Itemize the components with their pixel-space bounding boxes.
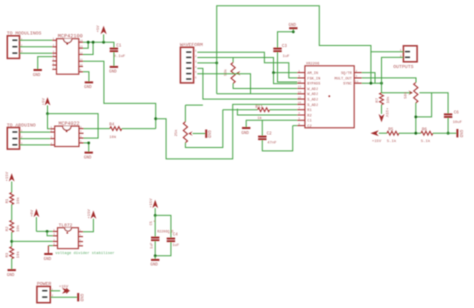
- wire AM junction to BYPASS: [274, 73, 298, 84]
- svg-text:6: 6: [298, 123, 300, 126]
- wire tap to TL072: [12, 240, 53, 242]
- wire rail mid: [399, 132, 421, 134]
- connector J1 TO MODULINOS: [7, 31, 42, 59]
- svg-text:C4: C4: [173, 233, 179, 237]
- svg-text:+5V: +5V: [97, 25, 101, 33]
- wire +5V to IC2 left: [48, 114, 51, 129]
- connector J2 TO ARDUINO: [7, 122, 36, 149]
- wire J1.3 to IC1: [20, 52, 53, 54]
- node N1: [154, 117, 157, 120]
- wire POWER pin1: [50, 290, 60, 292]
- wire J3.3 to top net: [197, 62, 216, 64]
- node +5V junction: [46, 112, 49, 115]
- ground GND1: [33, 69, 42, 78]
- svg-text:50k: 50k: [223, 68, 228, 76]
- node SYNC row junctions: [370, 82, 383, 85]
- resistor R6 5.1k: [421, 128, 433, 144]
- node AM junction: [272, 71, 275, 74]
- svg-text:11: 11: [355, 80, 359, 83]
- wire +5V to IC2 right: [48, 114, 99, 139]
- svg-text:GND: GND: [241, 132, 249, 136]
- capacitor C4 1uF: [155, 215, 180, 255]
- ground GND2 under C1: [109, 66, 118, 75]
- node C3 gnd junction: [292, 30, 295, 33]
- resistor R5 5.1k: [387, 128, 399, 144]
- svg-text:S_ADJ: S_ADJ: [307, 104, 318, 108]
- wire chain to gnd: [11, 259, 13, 270]
- wire IC2 out to R4: [84, 128, 110, 130]
- resistor R4 10k: [109, 124, 122, 140]
- node divider tap: [10, 240, 13, 243]
- svg-text:W_ADJ: W_ADJ: [307, 93, 318, 97]
- svg-text:7: 7: [298, 107, 300, 110]
- svg-text:10: 10: [80, 64, 84, 67]
- svg-text:1: 1: [298, 70, 300, 73]
- supply -15V arrow down: [379, 108, 388, 123]
- svg-text:+6V: +6V: [31, 209, 35, 217]
- svg-text:0.1uF: 0.1uF: [114, 55, 126, 59]
- svg-text:13: 13: [80, 46, 84, 49]
- svg-text:14: 14: [80, 40, 84, 43]
- node rail junctions: [414, 132, 449, 135]
- svg-text:8: 8: [298, 112, 300, 115]
- potentiometer 50k (left): [223, 58, 297, 89]
- op-amp IC2 MCP4922: [50, 121, 83, 147]
- svg-text:+15V: +15V: [372, 140, 382, 144]
- wire OUTPUTS pin2: [382, 57, 404, 92]
- ground GND6 rotated at 25k wiper: [205, 130, 210, 139]
- capacitor C6 10uF: [444, 112, 463, 134]
- wire junction to pin2: [47, 231, 53, 235]
- svg-text:C2: C2: [267, 133, 273, 137]
- ground GND3 under IC1: [84, 81, 93, 90]
- svg-text:+15V: +15V: [6, 171, 10, 181]
- svg-text:BYPASS: BYPASS: [307, 83, 320, 87]
- wire R11 net: [223, 109, 258, 111]
- node rail junctions: [87, 41, 105, 44]
- svg-text:1uF: 1uF: [151, 242, 155, 248]
- supply +15V decoupling block: [150, 198, 158, 216]
- node decoupling top: [154, 214, 157, 217]
- svg-text:+5V: +5V: [42, 98, 46, 106]
- svg-text:OUTPUTS: OUTPUTS: [393, 64, 413, 70]
- svg-text:GND: GND: [150, 264, 158, 268]
- svg-text:R3: R3: [6, 252, 10, 257]
- svg-text:+15V: +15V: [150, 198, 154, 208]
- svg-text:50k: 50k: [403, 91, 408, 99]
- svg-text:+: +: [153, 220, 155, 224]
- wire jog rail to IC1 pin: [83, 42, 88, 48]
- svg-text:2: 2: [355, 70, 357, 73]
- svg-text:1: 1: [195, 50, 197, 53]
- svg-text:1uF: 1uF: [172, 244, 180, 248]
- wire top net to W_ADJ: [217, 93, 298, 95]
- ground GND4 under IC2: [84, 152, 93, 161]
- svg-text:47nF: 47nF: [267, 141, 277, 145]
- svg-text:16: 16: [298, 102, 302, 105]
- svg-text:R2: R2: [307, 114, 311, 118]
- svg-text:GND: GND: [44, 258, 52, 262]
- svg-text:5: 5: [298, 118, 300, 121]
- wire OUTPUTS pin1: [371, 51, 404, 53]
- svg-text:AM_IN: AM_IN: [307, 72, 318, 76]
- wire SQ/TR jog: [362, 73, 375, 84]
- svg-text:GND: GND: [84, 86, 92, 90]
- supply +15V at TL072: [83, 209, 96, 232]
- wire chain to tap: [11, 232, 13, 246]
- resistor R11 1k: [255, 106, 297, 121]
- wire jog rail to IC1 pin: [83, 42, 93, 54]
- wire POWER pin2: [50, 296, 77, 298]
- supply +15V arrow right: [59, 286, 70, 294]
- svg-text:R1: R1: [307, 109, 311, 113]
- svg-text:2: 2: [195, 55, 197, 58]
- svg-text:GND: GND: [79, 294, 83, 302]
- supply +15V arrow left: [371, 130, 382, 144]
- svg-text:GND: GND: [206, 130, 210, 138]
- svg-text:C6: C6: [454, 112, 460, 116]
- wire J1.1 to IC1: [20, 39, 53, 41]
- svg-text:C3: C3: [282, 45, 288, 49]
- svg-text:10k: 10k: [16, 196, 21, 204]
- svg-text:MULT_OUT: MULT_OUT: [335, 77, 353, 81]
- svg-text:10k: 10k: [386, 96, 391, 104]
- svg-text:9: 9: [298, 75, 300, 78]
- connector J4 OUTPUTS: [393, 46, 417, 70]
- node J3.3 junction: [215, 62, 218, 65]
- svg-text:1uF: 1uF: [283, 55, 291, 59]
- ground GND12 rotated: [77, 293, 82, 302]
- svg-text:GND: GND: [84, 156, 92, 160]
- svg-text:GND: GND: [7, 274, 15, 278]
- svg-text:5.1k: 5.1k: [387, 139, 397, 144]
- wire IC2 to ground: [84, 143, 89, 152]
- svg-text:C2: C2: [307, 125, 311, 129]
- node pot2 tie junction: [414, 116, 417, 119]
- resistor R7 10k: [376, 93, 391, 114]
- wire MULT_OUT to pot2: [362, 78, 416, 83]
- wire J1.2 to IC1: [20, 46, 53, 48]
- ground GND8 rotated: [456, 129, 461, 138]
- svg-text:+15V: +15V: [59, 286, 69, 290]
- wire +6V to TL072: [36, 230, 53, 232]
- svg-text:W_ADJ: W_ADJ: [307, 88, 318, 92]
- svg-text:SQ/TR: SQ/TR: [341, 71, 353, 76]
- connector J3 WAVEFORM: [180, 42, 203, 83]
- svg-text:10k: 10k: [16, 251, 21, 259]
- wire IC1 pin4 to ground: [38, 57, 53, 69]
- capacitor C5 1uF: [150, 215, 159, 255]
- wire C1 pin net to ground: [246, 120, 297, 127]
- wire J3.2 to AM_IN: [197, 58, 297, 73]
- svg-text:FSK_IN: FSK_IN: [307, 77, 320, 81]
- ground GND7: [241, 127, 250, 136]
- svg-text:25k: 25k: [174, 129, 179, 137]
- wiper wire R7 to pot2: [382, 92, 412, 94]
- wire J3.4 to S_ADJ: [197, 68, 297, 99]
- resistor R2 10k: [6, 220, 21, 232]
- supply +6V: [31, 209, 39, 232]
- svg-text:11: 11: [80, 59, 84, 62]
- svg-text:+15V: +15V: [88, 209, 92, 219]
- supply +5V P2: [42, 97, 50, 114]
- node +6V junction: [46, 230, 49, 233]
- ground GND9: [7, 269, 16, 278]
- op-amp IC1 MCP42100: [52, 34, 83, 74]
- wire bottom rail: [379, 132, 387, 134]
- svg-text:10k: 10k: [109, 135, 117, 140]
- wire R2 stub net: [237, 109, 297, 115]
- ground GND10 at TL072: [44, 246, 53, 262]
- op-amp IC3 TL072: [53, 222, 83, 248]
- svg-text:+15V: +15V: [384, 108, 388, 118]
- potentiometer 25k: [174, 105, 223, 147]
- wire J3.5 wiper net: [197, 74, 250, 94]
- potentiometer pot2 50k: [403, 83, 418, 134]
- svg-text:S_ADJ: S_ADJ: [307, 99, 318, 103]
- wire IC1 top rail: [83, 42, 114, 47]
- svg-text:SYNC: SYNC: [343, 83, 352, 87]
- svg-text:voltage divider stabiliser: voltage divider stabiliser: [55, 251, 114, 256]
- resistor R3 10k: [6, 247, 21, 259]
- svg-text:10uF: 10uF: [453, 121, 463, 125]
- svg-text:GND: GND: [289, 24, 297, 28]
- wire chain: [11, 205, 13, 221]
- resistor R1 10k: [6, 193, 21, 205]
- svg-text:4: 4: [195, 66, 197, 69]
- wire pot2 right loop to C6: [419, 93, 448, 114]
- wire R4 to N1: [122, 128, 156, 130]
- wire SYNC row: [362, 82, 382, 84]
- svg-text:GND: GND: [458, 130, 462, 138]
- svg-text:R1: R1: [6, 198, 10, 203]
- wire pot2 wiper tie: [416, 93, 432, 117]
- wire C2 pin stub: [293, 125, 298, 127]
- svg-text:5: 5: [195, 71, 197, 74]
- svg-text:R2: R2: [6, 226, 10, 231]
- svg-text:15: 15: [298, 96, 302, 99]
- svg-text:GND: GND: [109, 71, 117, 75]
- svg-text:10: 10: [298, 80, 302, 83]
- svg-text:3: 3: [195, 60, 197, 63]
- capacitor C2 47nF: [258, 120, 293, 151]
- wire IC1 long net to XR2206 S_ADJ: [83, 61, 156, 128]
- node IC2 gnd junction: [87, 142, 90, 145]
- ground GND11: [150, 256, 159, 268]
- svg-text:3: 3: [355, 75, 357, 78]
- svg-text:12: 12: [80, 52, 84, 55]
- svg-text:6: 6: [195, 77, 197, 80]
- node decoupling bottom: [154, 254, 157, 257]
- wire J2.1: [20, 131, 51, 133]
- svg-text:14: 14: [298, 91, 302, 94]
- wire IC1 right to ground: [83, 72, 89, 82]
- supply +5V P1: [97, 25, 107, 42]
- svg-text:13: 13: [298, 86, 302, 89]
- wire rail end: [433, 132, 457, 134]
- wire J2.2: [20, 138, 51, 140]
- svg-text:GND: GND: [33, 74, 41, 78]
- wire J2.3: [20, 144, 51, 146]
- capacitor C1 0.1uF: [110, 44, 126, 66]
- svg-text:5.1k: 5.1k: [421, 139, 431, 144]
- wire J3.1 to FSK_IN: [197, 52, 297, 78]
- op-amp U1 XR2206: [297, 62, 362, 129]
- ground GND5 above XR2206: [289, 24, 298, 32]
- supply +15V left chain: [6, 171, 14, 192]
- svg-text:10k: 10k: [16, 224, 21, 232]
- wire N1 east branch: [156, 104, 298, 158]
- connector J5 POWER: [37, 281, 54, 303]
- svg-text:C1: C1: [307, 120, 311, 124]
- capacitor C3 1uF: [273, 32, 297, 82]
- wire top net long: [217, 6, 371, 94]
